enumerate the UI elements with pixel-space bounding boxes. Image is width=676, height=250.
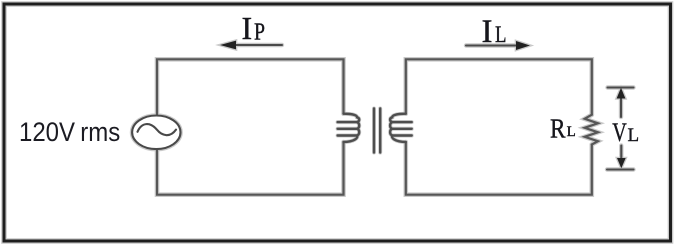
svg-text:L: L (628, 125, 640, 146)
svg-text:I: I (242, 10, 253, 46)
svg-text:rms: rms (80, 117, 120, 147)
svg-text:R: R (550, 112, 566, 143)
svg-text:L: L (495, 22, 507, 47)
svg-text:I: I (482, 14, 493, 50)
svg-text:L: L (567, 124, 576, 140)
svg-text:P: P (254, 19, 265, 45)
svg-text:120V: 120V (19, 117, 75, 147)
svg-text:V: V (612, 117, 627, 147)
